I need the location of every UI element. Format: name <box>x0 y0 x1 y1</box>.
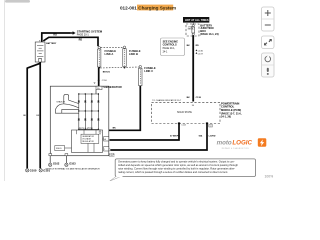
pin I (to L2) <box>104 147 111 151</box>
inline connector C136 <box>195 50 203 53</box>
connector label C124 <box>181 124 186 126</box>
generator case <box>50 86 109 156</box>
main feed wire BJB to cluster <box>192 35 194 101</box>
label SOLID STATE <box>177 111 192 114</box>
svg-text:904: 904 <box>199 134 203 137</box>
svg-text:C137: C137 <box>198 53 204 55</box>
svg-text:C136: C136 <box>198 51 204 53</box>
label FUSIBLE LINK C <box>144 66 156 73</box>
svg-text:LG/RD: LG/RD <box>209 135 216 137</box>
svg-text:BK: BK <box>23 115 26 117</box>
stator winding <box>55 95 78 114</box>
caption under generator <box>46 167 101 170</box>
svg-text:GENERATOR: GENERATOR <box>104 85 123 89</box>
svg-text:moto: moto <box>217 140 232 147</box>
svg-text:WITHOUT EXTERNAL VOLTAGE REGUL: WITHOUT EXTERNAL VOLTAGE REGULATOR GENER… <box>46 167 101 170</box>
svg-text:C1: C1 <box>209 126 211 128</box>
fusible link C <box>139 65 142 87</box>
wire label C138 <box>196 97 202 99</box>
svg-text:REGULATOR: REGULATOR <box>79 127 93 130</box>
ground G102 <box>49 162 60 167</box>
wire battery negative branches <box>27 62 40 168</box>
svg-text:LINK C: LINK C <box>144 69 153 73</box>
label box HOT AT ALL TIMES <box>183 17 209 23</box>
svg-text:RD: RD <box>196 45 200 47</box>
fusible link B <box>123 46 126 69</box>
svg-text:012-001: 012-001 <box>120 6 137 11</box>
pin A (to L1) <box>103 137 109 141</box>
svg-text:BK: BK <box>113 127 117 129</box>
dashed splice bus top <box>101 46 124 48</box>
svg-text:LOGIC: LOGIC <box>232 140 252 147</box>
svg-text:Charging System: Charging System <box>138 6 176 11</box>
label above instrument cluster <box>152 99 182 102</box>
wire label <box>170 135 180 137</box>
pin junction left <box>178 122 180 124</box>
svg-text:BK: BK <box>187 45 191 47</box>
wire label <box>209 135 216 137</box>
svg-text:PAGE 20-1: PAGE 20-1 <box>77 34 90 37</box>
svg-text:ECR: ECR <box>109 153 115 157</box>
wire label BK <box>23 115 26 117</box>
svg-text:C138: C138 <box>196 97 202 99</box>
svg-text:G100: G100 <box>30 168 37 172</box>
svg-text:REPAIR & DIAGNOSTICS: REPAIR & DIAGNOSTICS <box>222 147 250 150</box>
svg-text:FIELD: FIELD <box>56 148 62 150</box>
expand button <box>262 36 275 49</box>
svg-text:trolled and depends on speed: trolled and depends on speed at which ge… <box>118 163 239 167</box>
ground internal <box>99 129 102 134</box>
svg-text:nating current, which is passe: nating current, which is passed through … <box>118 170 228 174</box>
wire label BK <box>36 115 39 117</box>
mega fuse <box>188 23 195 36</box>
voltage regulator box <box>72 127 103 152</box>
wire label <box>199 134 203 137</box>
pin 30 <box>192 105 195 107</box>
svg-text:C110: C110 <box>102 80 108 82</box>
svg-text:CONTROLS: CONTROLS <box>163 44 177 47</box>
note box SEE ENGINE CONTROLS <box>161 38 185 56</box>
svg-text:HOT AT ALL TIMES: HOT AT ALL TIMES <box>185 18 209 22</box>
field coil <box>55 146 72 151</box>
ECR link <box>109 153 115 157</box>
wire RD battery to fusible link A <box>43 37 98 46</box>
ground G103 <box>65 162 76 167</box>
svg-text:G103: G103 <box>69 162 76 166</box>
motoLOGIC logo <box>217 138 267 150</box>
wire fusible link C to generator <box>109 87 140 131</box>
dashed splice bus bottom <box>100 67 139 68</box>
wire battery positive to starting system (RD) <box>42 33 70 42</box>
battery B1 <box>35 39 45 62</box>
wire label BK <box>187 97 191 99</box>
svg-text:RD: RD <box>79 39 83 42</box>
off-page arrow to starting system <box>70 31 76 35</box>
pin junction right <box>206 122 208 124</box>
tooltip callout box <box>110 159 256 181</box>
zoom buttons <box>262 7 275 31</box>
battery junction box (dashed) <box>186 24 199 36</box>
cluster output wire left <box>110 123 180 140</box>
ground G101 <box>39 168 50 172</box>
svg-text:REGULATOR: REGULATOR <box>82 140 94 143</box>
label STARTING SYSTEM / PAGE 20-1 <box>77 30 103 37</box>
svg-text:BK: BK <box>36 115 39 117</box>
svg-text:(PAGE 13-1, 24): (PAGE 13-1, 24) <box>200 33 219 36</box>
wire label BK <box>187 45 191 47</box>
svg-text:rotor winding. Current flow t: rotor winding. Current flow through roto… <box>118 166 235 170</box>
label FUSIBLE LINK B <box>129 49 141 56</box>
label POWERTRAIN CONTROL MODULE <box>221 101 242 118</box>
connector label C124 boxed <box>209 124 213 127</box>
generator ground stub left <box>49 154 52 163</box>
panel divider <box>4 0 6 181</box>
svg-text:24-1: 24-1 <box>163 51 168 54</box>
page title <box>120 5 176 11</box>
cluster output wire right <box>111 123 207 150</box>
label BATTERY <box>46 42 57 45</box>
wire label RD <box>53 34 57 37</box>
svg-text:100%: 100% <box>265 175 274 179</box>
svg-text:Generates power to keep batter: Generates power to keep battery fully ch… <box>118 159 235 163</box>
scrollbar thumb <box>5 0 30 3</box>
svg-text:RD: RD <box>53 34 57 37</box>
rectifier diode bridge <box>78 90 99 130</box>
instrument cluster (dashed) <box>152 102 221 123</box>
svg-text:30: 30 <box>192 105 195 107</box>
pin B+ <box>96 86 102 90</box>
label STATOR <box>56 100 65 103</box>
label FUSIBLE LINK A <box>105 49 117 56</box>
splice S101 <box>93 83 95 84</box>
inline connector C110 <box>98 80 108 82</box>
svg-text:LINK B: LINK B <box>129 52 138 56</box>
svg-text:C124: C124 <box>181 124 186 126</box>
svg-text:G102: G102 <box>53 162 60 166</box>
inline connector C137 <box>195 52 203 55</box>
svg-text:57 BK/PK: 57 BK/PK <box>170 135 180 137</box>
label GENERATOR <box>104 85 123 89</box>
svg-text:MEGA: MEGA <box>188 28 194 31</box>
svg-text:24-1, 26): 24-1, 26) <box>221 116 231 119</box>
wire label RD <box>79 39 83 42</box>
ground G100 <box>26 168 37 172</box>
generator ground stub right <box>65 154 68 163</box>
svg-text:STATOR: STATOR <box>56 100 65 103</box>
svg-text:BK: BK <box>187 97 191 99</box>
fusible link A <box>98 46 101 68</box>
svg-text:SOLID STATE: SOLID STATE <box>177 111 192 114</box>
wire fusible link A to generator B+ <box>98 68 100 86</box>
zoom level <box>265 175 274 179</box>
svg-text:BK/OG: BK/OG <box>103 72 110 74</box>
pan/slider buttons <box>262 53 275 77</box>
svg-text:LINK A: LINK A <box>105 52 114 56</box>
wire label BK <box>113 127 117 129</box>
svg-text:TO CHARGE INDICATOR 13-7: TO CHARGE INDICATOR 13-7 <box>152 99 182 102</box>
svg-text:BATTERY: BATTERY <box>46 42 57 45</box>
wire label RD <box>196 45 200 47</box>
label BATTERY JUNCTION BOX <box>200 23 219 35</box>
wire label BK/OG <box>103 72 110 74</box>
